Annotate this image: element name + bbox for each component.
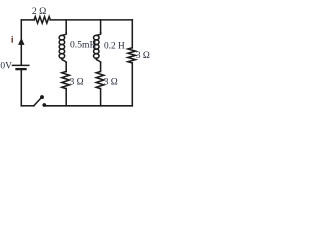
wire: resistor to top-right corner	[50, 19, 132, 21]
svg-text:3 Ω: 3 Ω	[136, 51, 150, 61]
svg-text:0V: 0V	[0, 62, 12, 72]
resistor 3 ohm (branch 2)	[96, 72, 104, 89]
branch 1: top lead	[65, 20, 67, 33]
wire: top-left corner to resistor 2ohm	[21, 19, 34, 21]
wire: right side upper	[131, 20, 133, 48]
branch 2: top lead	[100, 20, 102, 33]
battery: short thick plate	[17, 68, 26, 70]
switch: fixed contact dot	[42, 103, 46, 107]
wire: bottom-left corner to switch pivot	[21, 105, 34, 107]
inductor 0.2 H (coil, branch 2)	[96, 33, 101, 36]
resistor 2 ohm (top wire)	[34, 17, 50, 24]
resistor 3 ohm (branch 1)	[62, 72, 70, 89]
current arrow i (upward)	[18, 38, 24, 45]
resistor 3 ohm (right branch)	[128, 48, 136, 63]
wire: left side upper (corner to battery)	[20, 20, 22, 65]
switch blade (open, angled up)	[34, 98, 41, 106]
wire: right side lower	[131, 63, 133, 106]
branch 2: bottom lead	[100, 89, 102, 106]
branch 2: lead between coil and resistor	[100, 62, 102, 71]
svg-text:i: i	[11, 35, 14, 45]
svg-text:2 Ω: 2 Ω	[32, 6, 46, 17]
switch: blade end dot	[40, 95, 44, 99]
wire: left side lower (battery to bottom corner)	[20, 70, 22, 106]
branch 1: bottom lead	[65, 89, 67, 106]
branch 1: lead between coil and resistor	[65, 62, 67, 71]
svg-text:3 Ω: 3 Ω	[70, 77, 84, 87]
svg-text:0.2 H: 0.2 H	[104, 42, 125, 52]
svg-text:3 Ω: 3 Ω	[104, 77, 118, 87]
battery: long plate	[13, 64, 29, 66]
inductor 0.5mH (coil, branch 1)	[62, 33, 67, 36]
svg-text:0.5mH: 0.5mH	[70, 40, 96, 51]
wire: bottom rail	[44, 105, 132, 107]
